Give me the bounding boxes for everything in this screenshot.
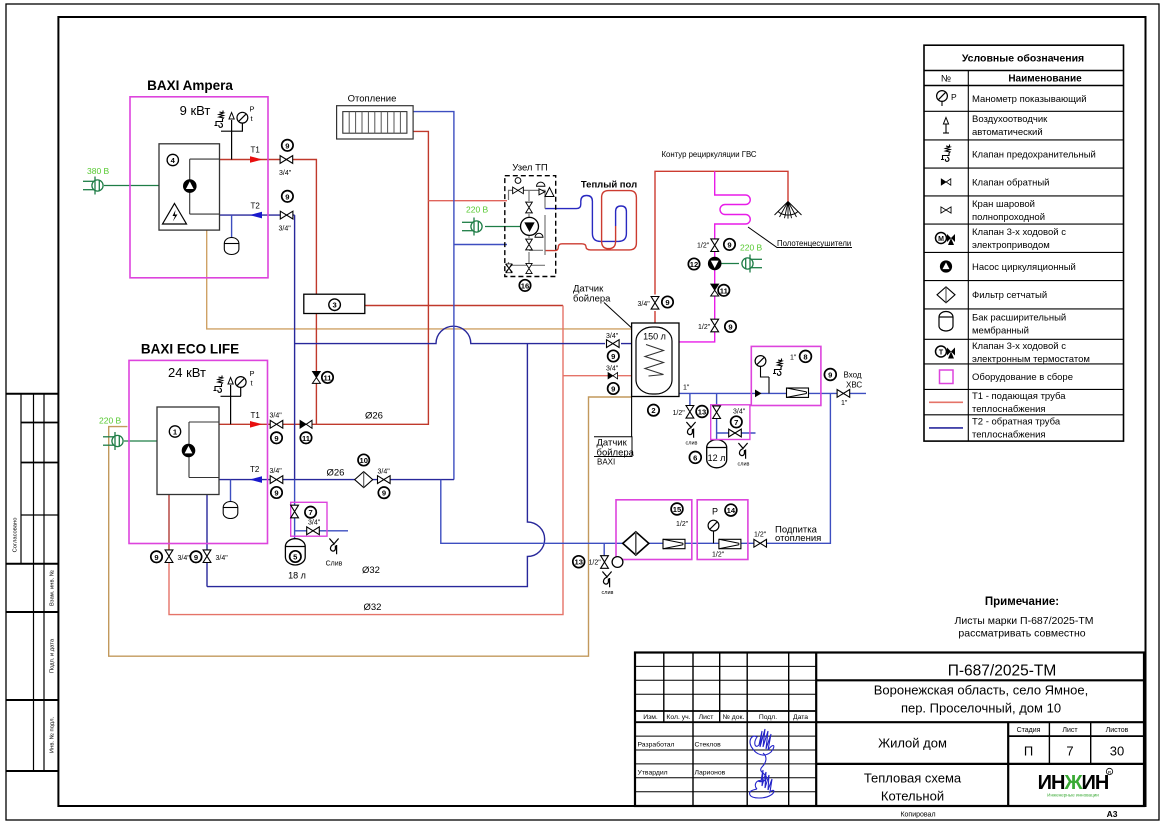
label 9 (378, 487, 389, 498)
svg-text:Взам. инв. №: Взам. инв. № (50, 570, 56, 606)
svg-text:24 кВт: 24 кВт (168, 365, 206, 380)
svg-text:13: 13 (698, 408, 706, 417)
svg-text:Тепловая схема: Тепловая схема (864, 771, 962, 786)
valve T1 boiler1 3/4 (280, 156, 293, 164)
svg-text:полнопроходной: полнопроходной (972, 212, 1045, 223)
svg-text:Ларионов: Ларионов (695, 769, 726, 776)
wire blue floor heating coil (545, 196, 626, 242)
tank drain valve 1/2 with label 13 (673, 406, 708, 447)
wire tan boiler1 condensate (207, 230, 631, 329)
wire blue makeup water line (441, 393, 831, 543)
svg-text:Клапан 3-х ходовой с: Клапан 3-х ходовой с (972, 227, 1066, 238)
svg-text:T2: T2 (250, 465, 260, 474)
filter strainer 10 (355, 472, 373, 488)
svg-text:Листы марки П-687/2025-ТМ: Листы марки П-687/2025-ТМ (954, 615, 1093, 627)
svg-text:220 В: 220 В (466, 205, 489, 215)
power plug 220V towel pump (740, 243, 763, 273)
svg-text:пер. Проселочный, дом 10: пер. Проселочный, дом 10 (901, 701, 1061, 716)
legend symbols (929, 91, 963, 428)
valve XVS inlet 1 inch (837, 390, 850, 398)
small equipment box 7 at boiler2 (291, 502, 327, 536)
svg-text:Жилой дом: Жилой дом (878, 736, 947, 751)
svg-text:1": 1" (683, 385, 690, 392)
svg-text:Оборудование в сборе: Оборудование в сборе (972, 372, 1073, 383)
svg-text:3/4": 3/4" (270, 468, 283, 475)
wire green power 380V boiler1 (104, 185, 159, 187)
wire blue radiator return (413, 112, 454, 480)
sensor line to label (631, 397, 633, 437)
svg-text:3/4": 3/4" (606, 333, 619, 340)
wire blue boiler2 drain branch to 18l tank (295, 480, 348, 542)
svg-text:9: 9 (194, 553, 198, 562)
svg-text:3/4": 3/4" (178, 555, 191, 562)
svg-text:Лист: Лист (699, 714, 714, 721)
svg-text:1": 1" (841, 400, 848, 407)
small equipment box 7 at water heater (711, 405, 750, 440)
svg-text:Полотенцесушители: Полотенцесушители (777, 239, 851, 248)
svg-text:T1: T1 (251, 411, 261, 420)
power plug 380V (83, 166, 110, 195)
makeup water unit: regulator box 14 (697, 500, 748, 560)
svg-text:Дата: Дата (793, 714, 808, 721)
valve on GVS riser red 3/4 (651, 297, 659, 310)
label boiler sensor upper with callout (573, 284, 632, 328)
floor heating unit dashed box (505, 163, 556, 277)
svg-text:3/4": 3/4" (378, 469, 391, 476)
svg-text:3/4": 3/4" (279, 226, 292, 233)
label 4 (167, 154, 178, 165)
svg-text:слив: слив (738, 462, 750, 468)
svg-text:R: R (1108, 770, 1112, 776)
svg-text:BAXI: BAXI (597, 458, 615, 467)
valve into tank coil blue 3/4 (607, 340, 620, 348)
svg-text:П: П (1024, 744, 1033, 759)
valve on towel line upper 1/2 (711, 239, 719, 252)
safety group boiler U1 (214, 369, 255, 424)
power plug 220V floor unit (462, 205, 489, 236)
svg-text:Бак расширительный: Бак расширительный (972, 313, 1066, 324)
svg-text:1/2": 1/2" (589, 560, 602, 567)
flow arrow T1 (250, 156, 263, 163)
svg-text:T1: T1 (251, 146, 261, 155)
svg-text:8: 8 (803, 352, 807, 361)
svg-text:бойлера: бойлера (573, 294, 611, 305)
svg-text:Ø32: Ø32 (364, 602, 382, 613)
svg-text:220 В: 220 В (740, 243, 763, 253)
svg-text:9: 9 (274, 434, 278, 443)
radiator heating (337, 94, 414, 140)
boiler U4 BAXI Ampera assembly box (130, 78, 268, 278)
safety group boiler U4 (215, 105, 255, 160)
svg-text:1/2": 1/2" (676, 521, 689, 528)
svg-text:П-687/2025-ТМ: П-687/2025-ТМ (948, 663, 1057, 680)
svg-text:9: 9 (154, 553, 158, 562)
svg-text:11: 11 (302, 434, 311, 443)
wire T1 red boiler1 down to mixing valve (220, 160, 317, 425)
svg-text:P: P (951, 92, 957, 102)
svg-text:Инженерные инновации: Инженерные инновации (1047, 793, 1099, 798)
flow arrow T2 (250, 212, 263, 219)
svg-text:Насос циркуляционный: Насос циркуляционный (972, 262, 1076, 273)
svg-text:7: 7 (308, 508, 312, 517)
svg-text:мембранный: мембранный (972, 326, 1029, 337)
svg-text:Подл.: Подл. (759, 714, 777, 721)
svg-text:9: 9 (285, 192, 289, 201)
svg-text:1/2": 1/2" (673, 410, 686, 417)
wire red tank riser and bottom run (169, 306, 563, 615)
svg-text:Лист: Лист (1062, 727, 1078, 734)
svg-text:BAXI Ampera: BAXI Ampera (147, 78, 233, 93)
wire green power 220V boiler2 (124, 440, 157, 442)
svg-text:7: 7 (734, 418, 738, 427)
svg-text:Ø32: Ø32 (362, 565, 380, 576)
wire blue tank return branch down (207, 344, 545, 587)
expansion tank boiler U1 (223, 502, 238, 519)
svg-text:Теплый пол: Теплый пол (581, 180, 637, 191)
svg-text:15: 15 (673, 505, 682, 514)
wire blue T2 boiler1 (220, 215, 649, 480)
svg-text:1": 1" (790, 355, 797, 362)
cold water inlet unit box 8 (751, 346, 821, 405)
wire blue expansion stem boiler2 (230, 480, 232, 503)
svg-text:Слив: Слив (326, 561, 343, 568)
wire blue expansion branch to box7 (717, 393, 756, 442)
svg-text:Условные обозначения: Условные обозначения (962, 53, 1084, 65)
svg-text:M: M (938, 236, 944, 243)
svg-text:7: 7 (1066, 744, 1073, 759)
expansion tank 18l (285, 539, 305, 581)
svg-text:18 л: 18 л (288, 571, 306, 581)
svg-text:Клапан предохранительный: Клапан предохранительный (972, 149, 1096, 160)
svg-text:9: 9 (382, 489, 386, 498)
svg-text:3/4": 3/4" (733, 409, 746, 416)
hazard triangle boiler U4 (163, 204, 187, 225)
note text (954, 596, 1093, 640)
svg-text:9: 9 (285, 141, 289, 150)
svg-text:12 л: 12 л (708, 453, 726, 463)
label 11 (300, 432, 311, 443)
drain hook box7 (738, 443, 750, 468)
svg-text:16: 16 (521, 281, 529, 290)
wire blue floor unit return (454, 244, 507, 246)
svg-text:9: 9 (274, 489, 278, 498)
svg-text:Клапан обратный: Клапан обратный (972, 177, 1050, 188)
wire red floor heating coil (545, 191, 636, 251)
svg-text:P: P (250, 369, 255, 378)
label 16 (519, 280, 530, 291)
svg-text:A3: A3 (1107, 809, 1118, 819)
svg-text:9: 9 (727, 240, 731, 249)
wire T1 red boiler2 to radiator (219, 131, 428, 424)
check valve into tank coil red 3/4 (608, 373, 618, 379)
wire red into tank coil (563, 375, 647, 377)
svg-text:Кран шаровой: Кран шаровой (972, 199, 1035, 210)
svg-text:ХВС: ХВС (846, 381, 862, 390)
label 1 (169, 426, 180, 437)
drain valve boiler2 blue 3/4 (203, 550, 211, 563)
svg-text:слив: слив (602, 590, 614, 596)
svg-text:3/4": 3/4" (638, 301, 651, 308)
valve T1 boiler2 3/4 (270, 420, 283, 428)
svg-text:11: 11 (323, 373, 332, 382)
label boiler sensor lower (594, 437, 635, 467)
svg-text:Вход: Вход (844, 371, 862, 380)
check valve towel line (711, 284, 719, 296)
svg-text:P: P (712, 507, 718, 517)
flow arrow T1 boiler2 (250, 421, 263, 428)
boiler U1 BAXI ECO LIFE assembly box (129, 342, 268, 544)
svg-text:T: T (939, 350, 944, 357)
wire blue expansion stem boiler1 (231, 215, 233, 238)
valve T2 boiler1 3/4 (280, 211, 293, 219)
svg-text:Стеклов: Стеклов (695, 742, 722, 749)
svg-text:теплоснабжения: теплоснабжения (972, 404, 1046, 415)
svg-text:30: 30 (1110, 744, 1124, 759)
valve T2 boiler2 3/4 (270, 476, 283, 484)
wire red GVS recirculation loop (655, 171, 788, 330)
label 9 (282, 191, 293, 202)
svg-text:3/4": 3/4" (270, 413, 283, 420)
towel dryer callout (748, 227, 852, 248)
title block (635, 653, 1144, 807)
svg-text:№: № (941, 74, 951, 85)
svg-text:3/4": 3/4" (308, 520, 321, 527)
circulation pump towel line (708, 257, 721, 270)
legend table (924, 45, 1124, 441)
label 9 after box8 (824, 369, 836, 381)
label 11 (322, 372, 333, 383)
wire green power 220V floor pump (485, 226, 521, 228)
svg-text:слив: слив (686, 441, 698, 447)
shower symbol (775, 202, 802, 219)
svg-text:Т1 - подающая труба: Т1 - подающая труба (972, 391, 1066, 402)
check valve vertical on T1 riser (312, 371, 320, 383)
svg-text:Согласовано: Согласовано (13, 518, 19, 553)
label 9 (282, 140, 293, 151)
mixing unit 3 (304, 294, 365, 313)
svg-text:10: 10 (359, 456, 367, 465)
svg-text:150 л: 150 л (643, 332, 666, 342)
drain on makeup line 13 (573, 556, 623, 596)
wire red mixing valve output (365, 305, 563, 307)
svg-text:12: 12 (690, 260, 698, 269)
drain valve boiler2 red 3/4 (165, 550, 173, 563)
svg-text:Т2 - обратная труба: Т2 - обратная труба (972, 417, 1061, 428)
wire magenta GVS hot water serpentine (679, 171, 750, 342)
svg-text:Листов: Листов (1106, 727, 1129, 734)
svg-text:Ø26: Ø26 (327, 468, 345, 479)
svg-text:Инв. № подл.: Инв. № подл. (50, 717, 56, 753)
svg-text:220 В: 220 В (99, 416, 122, 426)
svg-text:№ док.: № док. (723, 714, 745, 721)
svg-text:Подп. и дата: Подп. и дата (50, 638, 56, 673)
svg-text:1/2": 1/2" (698, 324, 711, 331)
svg-text:380 В: 380 В (87, 166, 110, 176)
label 9 (271, 432, 282, 443)
drain hook at boiler2 (326, 539, 343, 568)
svg-text:9: 9 (728, 323, 732, 332)
svg-text:Контур рециркуляции ГВС: Контур рециркуляции ГВС (661, 150, 756, 159)
svg-text:автоматический: автоматический (972, 127, 1043, 138)
wire blue tank drain branch (689, 393, 691, 405)
svg-text:Воздухоотводчик: Воздухоотводчик (972, 114, 1048, 125)
svg-text:Узел ТП: Узел ТП (512, 163, 548, 174)
svg-text:9: 9 (611, 385, 615, 394)
svg-text:Манометр показывающий: Манометр показывающий (972, 94, 1087, 105)
svg-text:Воронежская область, село Ямно: Воронежская область, село Ямное, (874, 683, 1088, 698)
svg-text:14: 14 (727, 506, 736, 515)
svg-text:Кол. уч.: Кол. уч. (666, 714, 690, 721)
svg-text:1/2": 1/2" (697, 243, 710, 250)
wire green power 220V towel pump (721, 263, 739, 265)
svg-text:11: 11 (720, 286, 729, 295)
flow arrow T2 boiler2 (250, 476, 263, 483)
svg-text:Отопление: Отопление (348, 94, 397, 105)
svg-text:ИНЖИН: ИНЖИН (1038, 772, 1109, 794)
svg-text:T2: T2 (251, 202, 261, 211)
expansion tank 12l (689, 440, 726, 468)
svg-text:теплоснабжения: теплоснабжения (972, 430, 1046, 441)
svg-text:Стадия: Стадия (1017, 727, 1041, 734)
svg-text:9: 9 (828, 371, 832, 380)
pump inside boiler U1 (182, 444, 195, 457)
svg-text:P: P (250, 105, 255, 114)
svg-text:электронным термостатом: электронным термостатом (972, 354, 1090, 365)
wire T2 blue boiler2 (219, 479, 454, 481)
svg-text:отопления: отопления (775, 533, 821, 544)
svg-text:BAXI ECO LIFE: BAXI ECO LIFE (141, 342, 239, 357)
svg-text:6: 6 (693, 453, 697, 462)
wire red supply to floor unit (428, 200, 507, 202)
svg-text:рассматривать совместно: рассматривать совместно (958, 628, 1085, 640)
wire red boiler2 drain (168, 495, 170, 550)
power plug 220V boiler U1 (99, 416, 123, 451)
svg-text:3/4": 3/4" (279, 170, 292, 177)
signatures (750, 729, 774, 782)
svg-text:Разработал: Разработал (638, 741, 675, 749)
wire blue boiler2 bottom valve (206, 495, 208, 550)
svg-text:3: 3 (332, 301, 336, 310)
svg-text:Утвардил: Утвардил (638, 769, 668, 776)
valve T2 after filter 3/4 (378, 476, 391, 484)
svg-text:Ø26: Ø26 (365, 411, 383, 422)
svg-text:9: 9 (665, 298, 669, 307)
indirect water heater 150l (632, 323, 679, 416)
svg-text:1/2": 1/2" (754, 532, 767, 539)
svg-text:13: 13 (574, 558, 582, 567)
wire blue XVS cold water (679, 392, 866, 394)
valve on towel line lower 1/2 (711, 319, 719, 332)
svg-text:Копировал: Копировал (900, 812, 935, 819)
check valve T1 boiler2 (300, 420, 312, 428)
svg-text:3/4": 3/4" (216, 555, 229, 562)
label 9 (271, 487, 282, 498)
svg-text:Изм.: Изм. (643, 714, 658, 721)
svg-text:1/2": 1/2" (712, 552, 725, 559)
svg-text:Наименование: Наименование (1008, 74, 1082, 85)
svg-text:Котельной: Котельной (881, 789, 944, 804)
svg-text:2: 2 (651, 406, 655, 415)
svg-text:9 кВт: 9 кВт (180, 103, 211, 118)
wire blue drain branch on makeup line (603, 543, 605, 556)
svg-text:Фильтр сетчатый: Фильтр сетчатый (972, 290, 1047, 301)
svg-text:Примечание:: Примечание: (985, 596, 1059, 608)
wire tan tank drain loop (109, 397, 632, 656)
makeup water unit: filter box 15 (616, 500, 692, 560)
svg-text:9: 9 (611, 352, 615, 361)
svg-text:3/4": 3/4" (606, 366, 619, 373)
svg-text:Клапан 3-х ходовой с: Клапан 3-х ходовой с (972, 341, 1066, 352)
pump inside boiler U4 (184, 180, 197, 193)
expansion tank boiler U4 (224, 238, 239, 255)
makeup valve 1/2 (754, 539, 767, 547)
svg-text:электроприводом: электроприводом (972, 240, 1050, 251)
